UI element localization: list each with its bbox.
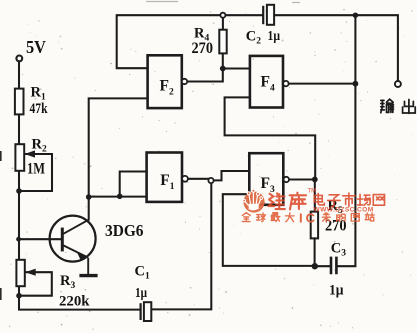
- svg-text:F3: F3: [261, 175, 275, 195]
- svg-text:IC: IC: [299, 210, 318, 225]
- label 输出 (output, CJK drawn as strokes): [381, 99, 415, 113]
- junction dot collector rail: [86, 194, 92, 200]
- junction dot F1 input: [117, 194, 123, 200]
- gate F4 output bubble: [283, 81, 288, 86]
- resistor R4: [219, 30, 226, 54]
- resistor R5: [311, 212, 318, 239]
- wire F2 upper input to top-left loop to top rail: [117, 15, 221, 68]
- 5V power terminal: [16, 56, 22, 62]
- transistor Q1 base bar: [61, 228, 64, 252]
- wire R2 bottom down left rail through node A and base tap to R3 top: [18, 171, 20, 260]
- scan artifacts at left edge: [0, 151, 2, 300]
- faint scan marks at top edge: [146, 2, 300, 3]
- svg-text:C1: C1: [135, 263, 150, 281]
- svg-text:1μ: 1μ: [135, 286, 147, 301]
- resistor R2 (potentiometer body): [15, 144, 24, 171]
- junction dot C3 left: [312, 263, 318, 269]
- wire emitter down to ground: [87, 258, 89, 274]
- transistor Q1 collector stroke: [63, 220, 88, 234]
- capacitor C2 (left plate): [262, 6, 264, 24]
- gate F1 box: [147, 153, 182, 202]
- wire collector junction up rail-2 to F2 lower input: [89, 98, 148, 197]
- watermark text 电子市场网: [314, 193, 384, 206]
- wire R3 bottom to bottom-left corner and bottom wire to C1 left plate: [19, 286, 140, 309]
- wire 5V terminal to R1 top: [18, 61, 20, 88]
- R2 wiper arrowhead: [25, 150, 36, 157]
- svg-text:1μ: 1μ: [268, 29, 281, 44]
- svg-text:3DG6: 3DG6: [105, 221, 144, 240]
- gate F3 box: [249, 153, 283, 205]
- output terminal: [395, 81, 401, 87]
- capacitor C3 (two plates): [331, 257, 336, 275]
- transistor Q1 3DG6 circle: [50, 216, 96, 262]
- open node at F1 output: [208, 178, 213, 183]
- svg-text:F4: F4: [261, 74, 275, 94]
- svg-text:R1: R1: [31, 85, 46, 103]
- wire F4 lower input feedback loop down to F3 output node: [225, 97, 316, 178]
- svg-text:1μ: 1μ: [329, 283, 344, 299]
- wire F1 output to open node: [188, 178, 209, 180]
- gate F3 output bubble: [284, 177, 289, 182]
- junction dot node A (R2 bottom): [16, 188, 22, 194]
- resistor R3 (potentiometer body): [16, 260, 24, 286]
- svg-text:R3: R3: [60, 273, 75, 291]
- wire base lead from left rail to transistor base: [19, 238, 61, 240]
- wire open node down to bottom wire and C1 right plate: [152, 183, 211, 309]
- svg-text:R2: R2: [32, 137, 47, 155]
- svg-text:F2: F2: [160, 78, 174, 98]
- wire R1 bottom to R2 top: [18, 114, 20, 144]
- wire right vertical rail from top junction down to C3 right plate: [338, 15, 356, 266]
- wire R3 wiper loop to lower junction: [21, 272, 52, 296]
- junction dot F4 output rail: [353, 81, 359, 87]
- junction dot R4 bottom: [220, 66, 226, 72]
- svg-text:5V: 5V: [26, 37, 46, 57]
- wire R5 top stem from F3 output node: [314, 180, 316, 212]
- wire C3 junction to C3 left plate: [315, 265, 330, 267]
- wire F3 output to node: [289, 178, 315, 180]
- wire R2 wiper loop to node A: [21, 154, 53, 191]
- svg-text:C2: C2: [246, 29, 261, 47]
- svg-text:TM: TM: [308, 189, 317, 195]
- capacitor C2 (right plate rectangle): [267, 5, 274, 25]
- wire F2 output jog up to R4 junction: [187, 69, 223, 82]
- watermark logo disc: [243, 189, 265, 212]
- capacitor C1 (right plate rectangle): [144, 302, 151, 321]
- wire collector riser to junction: [88, 197, 90, 220]
- wire top rail from open node to C2 left plate: [226, 14, 263, 16]
- svg-text:F1: F1: [160, 172, 174, 192]
- watermark text 维库: [268, 193, 305, 210]
- svg-text:47k: 47k: [30, 101, 49, 117]
- watermark line2 全球最大IC采购网站: [242, 213, 294, 222]
- ground: [79, 274, 97, 277]
- junction dot R3 wiper: [16, 293, 22, 299]
- svg-text:1M: 1M: [27, 161, 45, 178]
- gate F4 box: [250, 56, 283, 108]
- junction dot base tap: [16, 237, 21, 242]
- wire junction to F1 lower input: [89, 196, 147, 198]
- svg-text:220k: 220k: [59, 294, 90, 310]
- R3 wiper arrowhead: [25, 269, 36, 276]
- wire R5 bottom stem to C3 junction: [314, 238, 316, 266]
- gate F2 output bubble: [182, 79, 187, 84]
- gate F1 output bubble: [182, 176, 188, 182]
- capacitor C1 (left plate): [140, 303, 142, 320]
- resistor R1: [15, 89, 24, 115]
- wire F3 lower input loop to C3 junction: [223, 194, 315, 266]
- wire R4 top stem from open node: [222, 18, 224, 30]
- gate F2 box: [148, 55, 182, 108]
- svg-text:C3: C3: [331, 240, 346, 258]
- transistor Q1 emitter stroke with arrow: [63, 245, 88, 257]
- wire C2 right plate to top-right corner down to output terminal: [274, 15, 398, 81]
- junction dot top rail right: [353, 13, 358, 18]
- svg-text:WWW.DZSC.COM: WWW.DZSC.COM: [314, 206, 374, 213]
- wire F1 upper input loop: [120, 172, 147, 197]
- wire F4 output to right junction: [289, 83, 356, 85]
- wire R4 junction to F4 upper input: [223, 67, 250, 69]
- junction dot F3 output node: [312, 177, 318, 183]
- wire R4 bottom stem to junction: [222, 53, 224, 68]
- open node on top rail: [220, 13, 225, 18]
- svg-text:270: 270: [192, 40, 214, 57]
- wire open node to F3 upper input: [214, 171, 250, 180]
